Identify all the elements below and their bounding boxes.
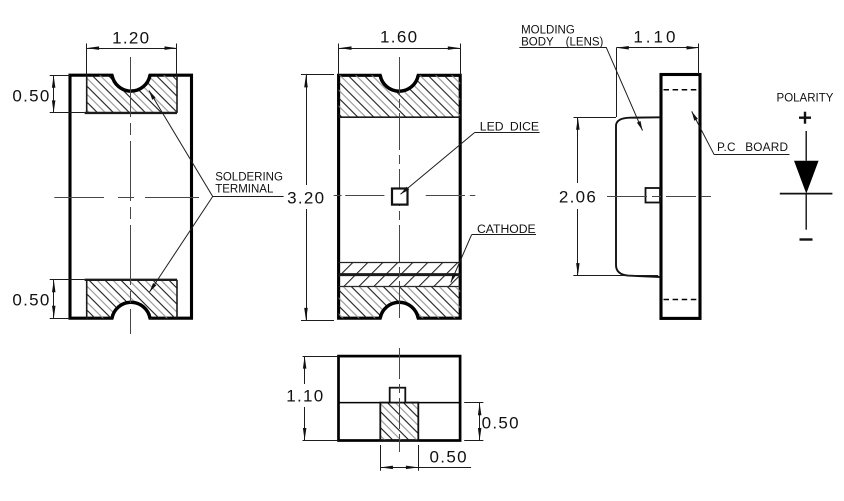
svg-text:CATHODE: CATHODE [477,222,536,236]
svg-text:1.10: 1.10 [286,387,324,406]
svg-text:SOLDERING: SOLDERING [215,171,283,183]
svg-text:0.50: 0.50 [12,87,50,106]
svg-text:1.10: 1.10 [633,28,678,47]
svg-text:TERMINAL: TERMINAL [215,183,274,195]
svg-text:3.20: 3.20 [287,188,325,207]
svg-text:P.C BOARD: P.C BOARD [717,140,788,154]
svg-text:1.60: 1.60 [380,28,418,47]
svg-text:0.50: 0.50 [482,414,520,433]
svg-text:BODY (LENS): BODY (LENS) [521,37,603,49]
svg-text:0.50: 0.50 [12,291,50,310]
svg-text:1.20: 1.20 [112,29,150,48]
svg-text:2.06: 2.06 [559,188,597,207]
svg-text:LED DICE: LED DICE [480,120,539,134]
svg-text:0.50: 0.50 [430,448,468,467]
svg-text:POLARITY: POLARITY [777,92,834,104]
svg-text:MOLDING: MOLDING [521,25,575,37]
